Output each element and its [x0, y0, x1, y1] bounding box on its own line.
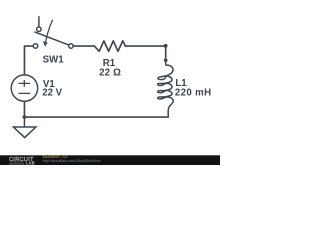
- wire: switch right terminal to resistor: [73, 45, 94, 47]
- wire: resistor to top-right corner down to inductor: [126, 46, 166, 60]
- switch top stub: [38, 17, 40, 27]
- voltage source V1: [11, 75, 37, 101]
- plus sign: [19, 80, 31, 87]
- switch right terminal circle: [69, 44, 74, 49]
- svg-text:http://circuitlab.com/c2kudl3n: http://circuitlab.com/c2kudl3nur5um: [43, 159, 101, 163]
- switch left terminal circle: [33, 44, 38, 49]
- ground: [13, 117, 36, 138]
- resistor R1 body: [94, 41, 125, 51]
- switch SW1: [33, 17, 73, 48]
- junction dot top-right corner: [164, 44, 168, 48]
- svg-text:22 V: 22 V: [42, 88, 62, 99]
- watermark bar: [0, 155, 220, 165]
- switch pole circle (top): [37, 27, 42, 32]
- switch actuation arrow curve: [46, 20, 53, 42]
- svg-text:220 mH: 220 mH: [175, 88, 212, 99]
- junction dot inductor top: [164, 58, 168, 62]
- junction dot ground node: [23, 115, 27, 119]
- svg-text:LAB: LAB: [26, 161, 35, 166]
- minus sign: [19, 92, 31, 94]
- svg-text:SW1: SW1: [43, 55, 65, 66]
- switch lever: [35, 32, 69, 45]
- wire: switch left terminal to left rail corner, down to V1 top: [24, 46, 33, 75]
- wire: V1 bottom to ground junction: [23, 101, 25, 117]
- switch arrow head: [43, 41, 48, 47]
- inductor L1 coil: [158, 60, 174, 117]
- svg-text:22 Ω: 22 Ω: [99, 68, 121, 79]
- wire: bottom rail: [24, 116, 168, 118]
- CircuitLab logo: [9, 157, 35, 166]
